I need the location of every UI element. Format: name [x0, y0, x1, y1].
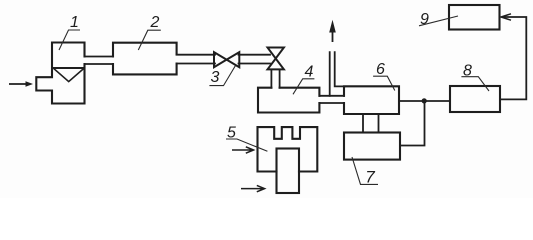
svg-text:7: 7 [365, 168, 375, 187]
svg-text:4: 4 [305, 64, 314, 81]
svg-text:5: 5 [227, 125, 236, 142]
svg-text:6: 6 [376, 61, 385, 78]
svg-text:1: 1 [70, 14, 79, 31]
svg-text:2: 2 [150, 14, 160, 31]
svg-text:3: 3 [211, 69, 220, 86]
svg-text:8: 8 [463, 63, 472, 80]
svg-text:9: 9 [420, 11, 429, 28]
